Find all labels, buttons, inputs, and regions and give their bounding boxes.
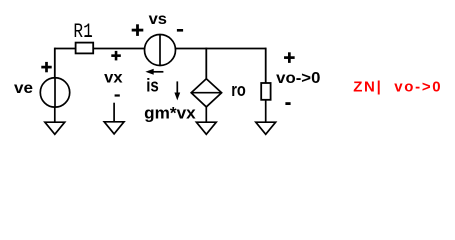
svg-text:vx: vx bbox=[104, 69, 123, 86]
label ve bbox=[14, 80, 33, 97]
svg-text:vs: vs bbox=[149, 11, 168, 28]
polarity + of ve bbox=[41, 62, 51, 72]
polarity + of vs bbox=[132, 24, 144, 36]
current arrow is bbox=[145, 69, 163, 75]
ground under gm*vx bbox=[196, 107, 216, 135]
svg-text:vo->0: vo->0 bbox=[276, 70, 320, 87]
polarity + of vx bbox=[111, 51, 121, 61]
svg-text:ZN| vo->0: ZN| vo->0 bbox=[353, 79, 442, 96]
dependent current source gm*vx bbox=[191, 79, 221, 107]
wire R1 right to vs left bbox=[94, 48, 145, 50]
ground under ro bbox=[256, 100, 276, 135]
polarity + of vo bbox=[284, 52, 295, 63]
label vo->0 bbox=[276, 70, 320, 87]
label R1 bbox=[73, 21, 92, 44]
ground under vx node bbox=[104, 103, 124, 134]
label ro bbox=[231, 80, 246, 100]
label gm*vx bbox=[144, 103, 196, 122]
label is bbox=[146, 76, 159, 96]
label vs bbox=[149, 11, 168, 28]
wire junction down to dependent source bbox=[205, 48, 207, 79]
wire vs right to right corner bbox=[175, 48, 266, 50]
polarity - of vx bbox=[115, 94, 120, 96]
voltage source vs bbox=[145, 35, 176, 66]
polarity - of vs bbox=[177, 29, 183, 32]
direction arrow of gm*vx bbox=[174, 81, 180, 100]
resistor R1 bbox=[76, 43, 94, 54]
label vx bbox=[104, 69, 123, 86]
ground under ve bbox=[45, 107, 65, 134]
wire from node A corner to R1 left bbox=[55, 48, 76, 50]
svg-text:R1: R1 bbox=[73, 21, 92, 44]
svg-text:ro: ro bbox=[231, 80, 246, 100]
voltage source ve bbox=[40, 78, 69, 107]
svg-text:ve: ve bbox=[14, 80, 33, 97]
svg-text:is: is bbox=[146, 76, 159, 96]
wire right corner down to ro bbox=[265, 48, 267, 83]
annotation ZN| vo->0 bbox=[353, 79, 442, 96]
svg-text:gm*vx: gm*vx bbox=[144, 103, 196, 122]
resistor ro bbox=[261, 83, 270, 100]
polarity - of vo bbox=[285, 102, 290, 105]
wire left vertical from corner down to ve bbox=[54, 48, 56, 78]
